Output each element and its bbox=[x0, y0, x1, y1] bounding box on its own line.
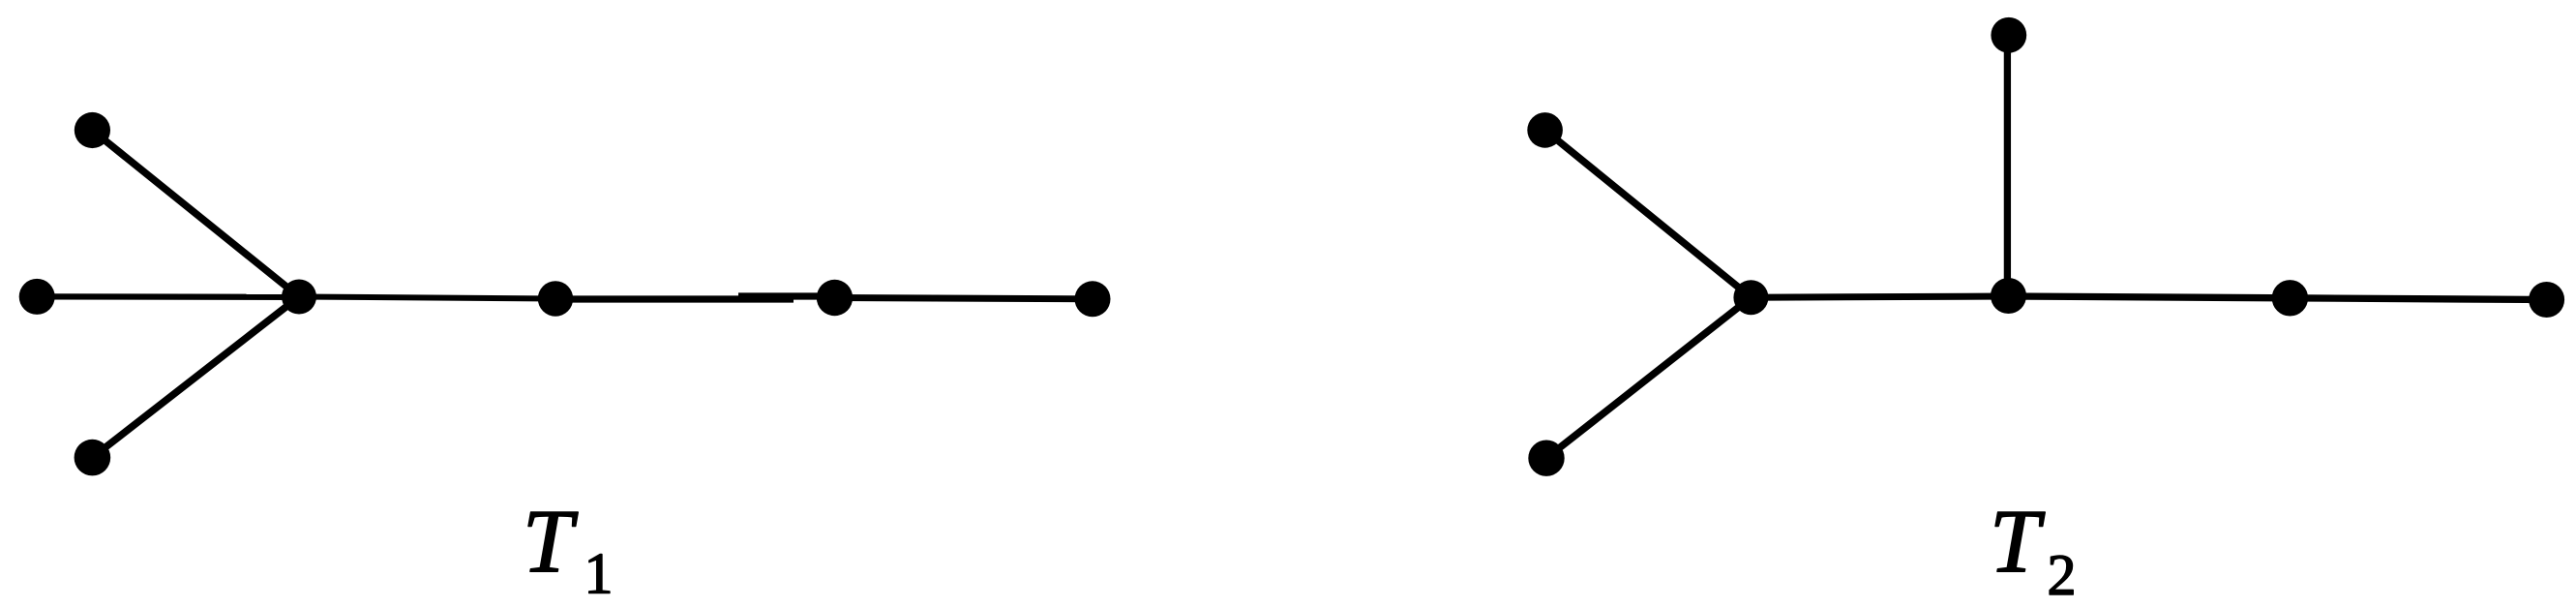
edge I-L (T2 hub to second path vertex) bbox=[1751, 296, 2008, 297]
node C (T1 hub vertex) bbox=[282, 280, 316, 315]
edge A-C (T1 upper-left leaf to hub) bbox=[92, 131, 299, 297]
node I (T2 hub vertex) bbox=[1733, 280, 1768, 315]
edge M-N (T2 third to fourth path vertex) bbox=[2290, 298, 2546, 300]
node H (T2 upper-left leaf vertex) bbox=[1527, 112, 1563, 148]
node K (T2 top leaf vertex) bbox=[1991, 17, 2026, 53]
node E (T1 path vertex 2) bbox=[538, 281, 573, 316]
edge F-G (T1 third to fourth path vertex) bbox=[835, 298, 1093, 299]
edge K-L (T2 top leaf down to second path vertex) bbox=[2004, 35, 2011, 295]
edge L-M (T2 second to third path vertex) bbox=[2009, 296, 2291, 298]
node L (T2 path vertex 2) bbox=[1991, 278, 2026, 314]
node B (T1 left leaf vertex) bbox=[19, 279, 55, 315]
edge B-C (T1 left leaf to hub) bbox=[37, 293, 299, 300]
node G (T1 path vertex 4, right end) bbox=[1075, 281, 1111, 317]
edge J-I (T2 lower-left leaf to hub) bbox=[1546, 297, 1751, 458]
node N (T2 path vertex 4, right end) bbox=[2529, 282, 2564, 318]
svg-text:1: 1 bbox=[584, 542, 614, 606]
edge H-I (T2 upper-left leaf to hub) bbox=[1545, 130, 1752, 297]
node M (T2 path vertex 3) bbox=[2272, 280, 2308, 316]
svg-text:T: T bbox=[1990, 492, 2046, 592]
edge D-C (T1 lower-left leaf to hub) bbox=[92, 297, 299, 458]
node D (T1 lower-left leaf vertex) bbox=[75, 440, 111, 476]
node A (T1 upper-left leaf vertex) bbox=[75, 112, 110, 148]
node F (T1 path vertex 3) bbox=[817, 280, 853, 316]
svg-text:T: T bbox=[523, 492, 579, 592]
edge C-E (T1 hub to second path vertex) bbox=[299, 297, 555, 299]
node J (T2 lower-left leaf vertex) bbox=[1528, 441, 1564, 476]
edge E-F (T1 second to third path vertex, drawn as two slightly offset strokes) bbox=[555, 295, 794, 302]
svg-text:2: 2 bbox=[2048, 543, 2077, 607]
